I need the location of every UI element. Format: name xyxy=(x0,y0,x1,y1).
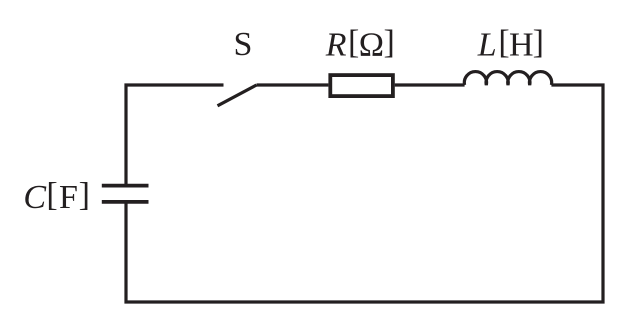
svg-text:F: F xyxy=(59,179,78,216)
svg-text:R: R xyxy=(325,27,347,64)
svg-text:[: [ xyxy=(348,24,359,61)
svg-text:H: H xyxy=(509,27,534,64)
svg-text:L: L xyxy=(477,27,497,64)
svg-text:Ω: Ω xyxy=(359,27,384,64)
svg-text:]: ] xyxy=(533,24,544,61)
svg-text:]: ] xyxy=(79,176,90,213)
svg-text:[: [ xyxy=(46,176,57,213)
svg-text:]: ] xyxy=(384,24,395,61)
svg-text:C: C xyxy=(23,179,46,216)
svg-text:S: S xyxy=(234,26,253,63)
